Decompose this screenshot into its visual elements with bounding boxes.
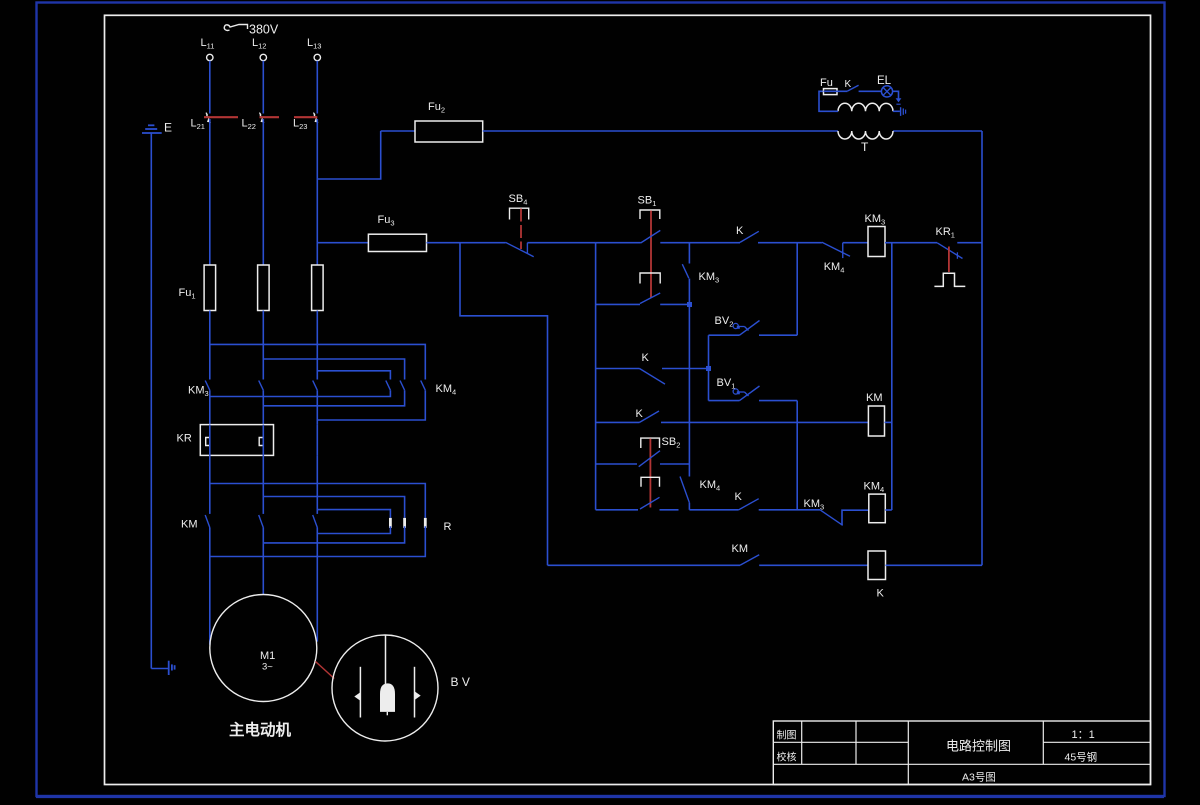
wire K to KM4 contact <box>758 242 822 244</box>
wire crossover return C <box>317 390 425 420</box>
wire KM3 blade jog <box>842 510 869 525</box>
contact KM blade phase 1 <box>205 515 210 528</box>
wire lamp to earth arrow <box>893 91 899 98</box>
svg-text:KM: KM <box>866 392 883 404</box>
red link motor to BV <box>316 662 335 679</box>
wire crossover return B <box>263 390 404 406</box>
button SB2 stem (red) <box>649 439 651 508</box>
svg-text:校核: 校核 <box>777 751 797 764</box>
contact KM4 NC blade <box>822 242 850 256</box>
contact KM4 blade 1 <box>386 381 391 391</box>
svg-text:Fu: Fu <box>820 77 833 89</box>
wire K to lamp <box>859 90 882 92</box>
wire phase2 KM3 to KR <box>262 390 264 424</box>
svg-text:380V: 380V <box>249 23 279 37</box>
wire crossover return A <box>210 390 391 396</box>
contact KR1 thermal symbol <box>934 273 965 286</box>
wire coil KM to return rail <box>885 421 892 423</box>
resistor R element 3 <box>424 518 427 528</box>
fuse Fu1 element phase 3 <box>312 265 324 311</box>
wire bottom line to K coil <box>759 564 868 566</box>
coil KM4 <box>869 494 886 523</box>
wire phase1 in KR <box>209 425 211 456</box>
wire coil KM3 to KR1 <box>885 242 937 244</box>
wire phase 3 from terminal to switch <box>316 61 318 114</box>
wire phase 2 from terminal to switch <box>262 61 264 114</box>
wire BV1 right vertical <box>796 401 798 510</box>
wire phase3 fuse to KM3 block <box>316 311 318 380</box>
svg-text:R: R <box>444 521 452 533</box>
ground symbol bottom <box>151 668 168 670</box>
svg-text:K: K <box>845 79 852 90</box>
rail coil return vertical <box>891 243 893 510</box>
coil KM3 <box>868 227 885 257</box>
transformer T primary coil <box>838 131 893 139</box>
svg-text:KM: KM <box>181 519 198 531</box>
svg-text:3~: 3~ <box>262 662 273 673</box>
svg-text:KR: KR <box>177 433 192 445</box>
sensor BV rotor <box>380 683 395 712</box>
wire phase1 KM3 to KR <box>209 390 211 424</box>
motor M1 circle <box>210 595 317 702</box>
wire R branch line 1 <box>210 484 425 518</box>
button SB4 stem (red) <box>520 209 522 250</box>
wire phase3 beside KR <box>316 425 318 456</box>
svg-text:M1: M1 <box>260 650 275 662</box>
wire KM3 NC vertical lower <box>688 279 690 477</box>
wire phase 1 switch to fuse <box>209 119 211 265</box>
wire crossover line 3 <box>317 371 390 380</box>
wire SB1 lower line right <box>660 303 689 305</box>
terminal circle L12 <box>260 54 266 60</box>
contact KM blade phase 2 <box>259 515 264 528</box>
coil K <box>868 551 886 580</box>
contact KM3 blade phase 1 <box>205 381 210 391</box>
sensor BV shaft line <box>385 635 387 684</box>
contact BV2 <box>709 334 740 336</box>
wire phase2 KR to KM <box>262 455 264 514</box>
wire bottom line left <box>548 564 741 566</box>
arrow down (lamp earth) <box>896 98 902 102</box>
svg-text:K: K <box>736 225 744 237</box>
switch QS linkage bar 2 (red) <box>260 116 280 118</box>
wire K hold line left <box>596 368 640 370</box>
wire Fu2 left lead <box>381 130 415 132</box>
wire SB4 to rail junction <box>527 242 595 244</box>
title block grid <box>773 721 1150 785</box>
wire KM line right <box>661 421 868 423</box>
wire R return 3 <box>317 526 390 533</box>
fuse Fu3 <box>368 234 426 251</box>
svg-text:EL: EL <box>877 75 892 87</box>
svg-text:B V: B V <box>451 675 470 689</box>
relay KR box <box>200 425 273 456</box>
rail right vertical <box>981 131 983 565</box>
switch QS linkage bar 1 (red) <box>204 116 238 118</box>
wire phase3 KR to KM <box>316 455 318 514</box>
wire phase3 KM3 down <box>316 390 318 424</box>
wire phase 2 switch to fuse <box>262 119 264 265</box>
button SB1 upper blade <box>641 230 661 243</box>
contact KR1 blade <box>937 243 962 259</box>
svg-text:电路控制图: 电路控制图 <box>946 739 1011 754</box>
wire Fu3 to SB4 <box>427 242 506 244</box>
wire KM4 NC vertical stub <box>688 503 690 510</box>
fuse Fu1 element phase 1 <box>204 265 216 311</box>
svg-text:K: K <box>735 491 743 503</box>
ground symbol (secondary) <box>900 107 902 116</box>
wire lower line KM4 to K <box>689 509 738 511</box>
sensor BV brush right <box>414 667 416 718</box>
resistor R element 1 <box>389 518 392 528</box>
wire phase2 in KR <box>262 425 264 456</box>
wire phase 1 from terminal to switch <box>209 61 211 114</box>
contact KM3 NC blade (lower) <box>820 510 843 526</box>
fuse Fu (lamp circuit) <box>824 89 838 95</box>
wire SB2 lower line <box>660 509 679 511</box>
terminal circle L13 <box>314 54 320 60</box>
blue bottom band <box>36 795 1164 798</box>
wire KM4 NC to coil KM3 <box>843 242 868 244</box>
coil KM <box>868 406 884 436</box>
wire KM line left <box>596 421 640 423</box>
svg-text:K: K <box>877 588 885 600</box>
wire R branch line 2 <box>263 497 404 518</box>
button SB4 cap <box>510 208 529 219</box>
resistor R element 2 <box>403 518 406 528</box>
wire phase 3 switch to fuse <box>316 119 318 265</box>
contact K blade (main line) <box>740 231 759 242</box>
transformer T secondary coil <box>838 103 893 111</box>
relay KR heater phase2 <box>259 438 263 446</box>
contact KM3 NC blade <box>682 264 689 278</box>
svg-text:E: E <box>164 121 172 135</box>
switch QS blade phase 1 <box>206 113 209 119</box>
wire transformer primary right to rail <box>893 130 982 132</box>
wire secondary left lead <box>819 91 838 111</box>
svg-text:K: K <box>636 408 644 420</box>
contact K blade (hold line) <box>640 369 666 385</box>
wire main line to SB1 <box>596 242 641 244</box>
wire crossover line 2 <box>263 359 404 380</box>
wire R return 2 <box>263 526 404 543</box>
ground E symbol <box>148 124 154 126</box>
contact KM4 NC blade (lower) <box>680 477 689 503</box>
wire phase1 KR to KM <box>209 455 211 514</box>
contact KM blade (bottom) <box>740 555 759 566</box>
wire phase3 to motor <box>316 528 318 642</box>
rail control left vertical <box>595 243 597 510</box>
contact K blade (lower line) <box>739 499 759 510</box>
relay KR heater phase1 <box>206 438 210 446</box>
wire K hold line right <box>662 368 709 370</box>
svg-text:T: T <box>861 140 869 154</box>
wire branch to Fu2 <box>317 131 380 179</box>
button SB2 upper blade <box>639 451 660 467</box>
terminal circle L11 <box>207 54 213 60</box>
switch QS blade phase 3 <box>313 113 316 119</box>
wire phase1 fuse to KM3 block <box>209 311 211 380</box>
contact KR1 stem (red) <box>948 247 950 273</box>
contact KM4 blade 3 <box>421 381 426 391</box>
button SB1 stem (red) <box>650 211 652 298</box>
fuse Fu1 element phase 2 <box>258 265 270 311</box>
wire SB2 lower line left <box>596 509 638 511</box>
wire SB1 lower line <box>596 303 640 305</box>
wire R branch line 3 <box>317 510 390 518</box>
wire coil KM4 to return rail <box>885 509 892 511</box>
wire BV2/BV1 left vertical <box>708 335 710 400</box>
button SB2 lower cap <box>641 477 660 486</box>
contact KM3 blade phase 3 <box>313 381 318 391</box>
svg-text:A3号图: A3号图 <box>962 772 996 784</box>
wire SB2 upper line right <box>660 463 689 465</box>
wire phase2 fuse to KM3 block <box>262 311 264 380</box>
wire lower line to KM3 contact <box>759 509 820 511</box>
contact KM4 blade 2 <box>400 381 405 391</box>
contact KM3 blade phase 2 <box>259 381 264 391</box>
wire SB2 upper line <box>596 463 637 465</box>
svg-text:45号钢: 45号钢 <box>1065 751 1098 764</box>
button SB1 cap <box>640 210 660 219</box>
svg-text:1：1: 1：1 <box>1072 729 1095 741</box>
wire phase2 to motor <box>262 528 264 595</box>
wire R return 1 <box>210 526 425 556</box>
wire KR1 to rail <box>957 242 982 244</box>
svg-text:KM: KM <box>732 543 749 555</box>
button SB2 cap <box>641 438 660 448</box>
svg-text:制图: 制图 <box>777 729 797 742</box>
sensor BV brush left <box>359 667 361 718</box>
svg-text:主电动机: 主电动机 <box>229 720 292 739</box>
AC source symbol ~380V <box>224 25 247 31</box>
button SB1 lower cap <box>640 273 660 284</box>
switch K blade (lamp) <box>847 85 858 91</box>
wire phase3 to Fu3 <box>317 242 368 244</box>
wire crossover line 1 (top) <box>210 344 425 379</box>
node junction (K/BV) <box>706 366 711 371</box>
fuse Fu2 <box>415 121 483 142</box>
contact K blade (KM line) <box>640 411 660 422</box>
node junction (SB1/KM3) <box>687 302 692 307</box>
button SB1 lower blade <box>640 293 660 304</box>
button SB4 blade <box>506 242 534 256</box>
sensor BV circle <box>332 635 438 741</box>
contact BV1 <box>709 400 740 402</box>
wire coil K to rail <box>886 564 983 566</box>
button SB2 lower blade <box>640 497 660 509</box>
wire SB1 to K contact <box>660 242 740 244</box>
wire secondary right lead <box>893 110 900 112</box>
switch QS linkage bar 3 (red) <box>294 116 317 118</box>
switch QS blade phase 2 <box>259 113 262 119</box>
wire Fu2 to transformer <box>483 130 838 132</box>
contact KM blade phase 3 <box>313 515 318 528</box>
wire BV2 right vertical <box>796 243 798 336</box>
wire junction feed down-left <box>460 243 548 566</box>
svg-text:K: K <box>642 352 650 364</box>
wire KM3 NC vertical upper <box>688 243 690 264</box>
lamp EL <box>881 86 892 97</box>
wire earth stem <box>150 133 152 669</box>
wire phase1 to motor <box>209 528 211 645</box>
